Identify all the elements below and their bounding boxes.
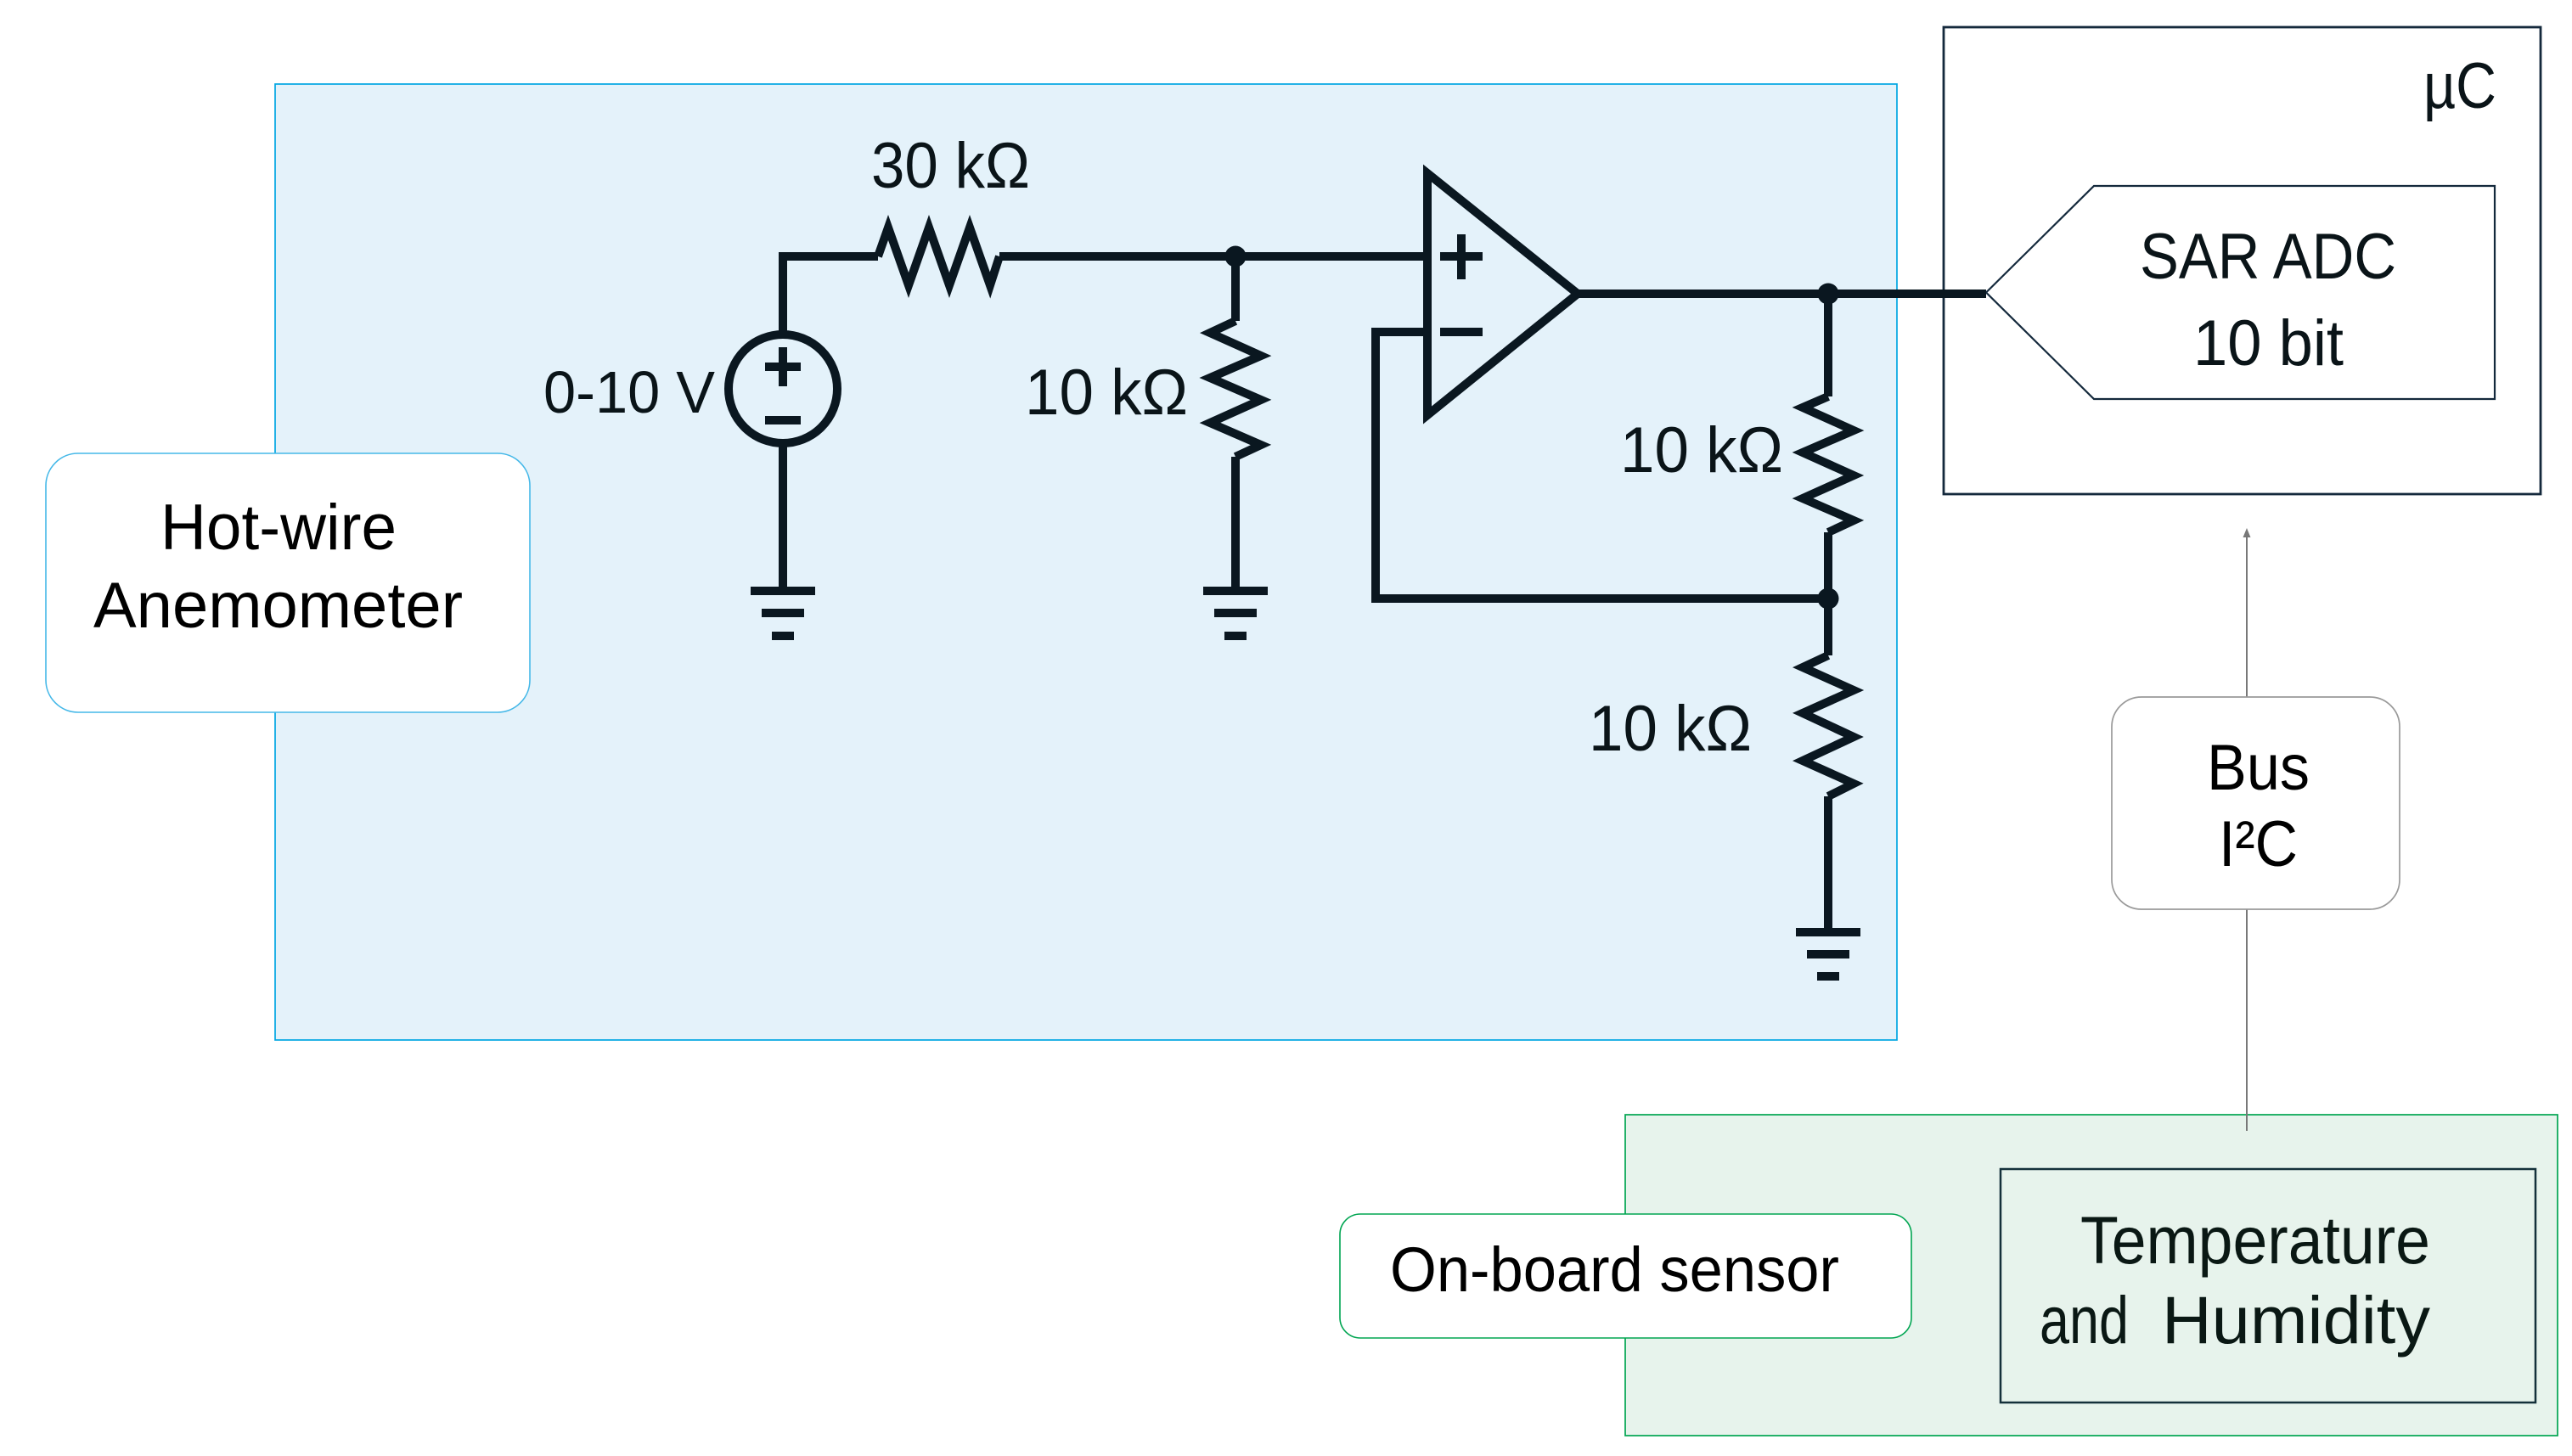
node junction dot out — [1818, 284, 1839, 305]
node junction dot A — [1225, 246, 1247, 267]
output wire op-amp to ADC — [1578, 290, 1986, 298]
wire from source top to resistor R1 — [783, 256, 878, 333]
Bus I2C label box — [2112, 697, 2400, 909]
svg-text:and: and — [2040, 1282, 2129, 1358]
resistor R3 10 kOhm — [1803, 396, 1854, 532]
svg-text:I²C: I²C — [2219, 808, 2298, 880]
resistor R4 10 kOhm — [1803, 655, 1854, 796]
microcontroller box uC — [1944, 27, 2541, 494]
svg-text:10 kΩ: 10 kΩ — [1025, 357, 1188, 429]
resistor R1 30 kOhm — [878, 228, 999, 285]
feedback wire from minus input to node B — [1376, 332, 1828, 599]
wire R2 to ground — [1231, 457, 1240, 587]
svg-text:Hot-wire: Hot-wire — [160, 492, 397, 564]
svg-text:Bus: Bus — [2207, 732, 2310, 804]
svg-text:On-board sensor: On-board sensor — [1390, 1234, 1839, 1305]
wire R4 to ground — [1824, 796, 1832, 929]
green subsystem region (on-board sensor) — [1625, 1115, 2558, 1436]
ground G2 — [1203, 591, 1268, 636]
wire source to ground — [779, 443, 787, 587]
svg-text:Temperature: Temperature — [2080, 1202, 2430, 1278]
SAR ADC pentagon block — [1986, 186, 2495, 399]
node junction dot B — [1818, 588, 1839, 610]
svg-text:30 kΩ: 30 kΩ — [871, 130, 1030, 202]
svg-text:Humidity: Humidity — [2162, 1282, 2430, 1358]
svg-text:0-10 V: 0-10 V — [543, 359, 715, 425]
op-amp U1 — [1427, 173, 1578, 415]
svg-text:10 bit: 10 bit — [2193, 307, 2344, 379]
svg-text:Anemometer: Anemometer — [93, 570, 463, 642]
Hot-wire Anemometer label box — [46, 453, 530, 712]
wire R3 to R4 through node B — [1824, 532, 1832, 655]
wire node out to resistor R3 — [1824, 294, 1832, 396]
voltage source V1 — [729, 334, 837, 443]
On-board sensor label box — [1340, 1214, 1911, 1338]
ground G3 — [1796, 932, 1860, 976]
op-amp plus input marking — [1440, 234, 1483, 279]
ground G1 — [751, 591, 815, 636]
svg-text:SAR ADC: SAR ADC — [2140, 221, 2396, 293]
svg-text:µC: µC — [2423, 50, 2496, 122]
svg-text:10 kΩ: 10 kΩ — [1620, 414, 1783, 486]
op-amp minus input marking — [1440, 328, 1483, 336]
svg-text:10 kΩ: 10 kΩ — [1589, 693, 1752, 765]
blue subsystem region (anemometer analog front-end) — [275, 84, 1897, 1040]
I2C arrow from sensor to uC — [2243, 528, 2251, 1131]
Temperature and Humidity sensor box — [2001, 1169, 2535, 1403]
wire node A to resistor R2 — [1231, 256, 1240, 321]
resistor R2 10 kOhm — [1210, 321, 1261, 457]
wire from R1 to op-amp + input — [999, 252, 1432, 261]
